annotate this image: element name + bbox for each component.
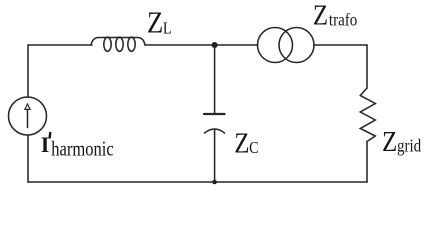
node A junction dot (top) <box>212 42 218 48</box>
svg-text:Z: Z <box>234 127 249 159</box>
wire inductor to node A <box>145 44 215 46</box>
svg-text:Z: Z <box>313 0 328 31</box>
svg-text:L: L <box>163 19 172 37</box>
svg-text:trafo: trafo <box>329 9 357 29</box>
wire node A to transformer <box>215 44 258 46</box>
wire node A down to capacitor <box>214 45 216 113</box>
label Ztrafo <box>313 0 357 31</box>
node B junction dot (bottom, capacitor tap) <box>212 180 217 185</box>
wire bottom horizontal (right corner to left corner) <box>28 181 367 183</box>
wire left vertical top (corner down to current source) <box>27 45 29 97</box>
label I'harmonic <box>41 132 114 161</box>
svg-text:harmonic: harmonic <box>51 138 113 162</box>
transformer Ztrafo (two overlapping circles) <box>258 28 315 63</box>
label ZC <box>234 127 258 159</box>
label ZL <box>147 6 172 40</box>
wire resistor bottom to bottom-right corner <box>366 142 368 183</box>
svg-text:C: C <box>249 139 258 157</box>
svg-text:Z: Z <box>382 125 397 157</box>
resistor Zgrid (zigzag) <box>360 88 375 142</box>
inductor ZL (coil) <box>91 37 145 51</box>
wire left vertical bottom (source to bottom-left corner) <box>27 135 29 182</box>
label Zgrid <box>382 125 421 157</box>
svg-text:Z: Z <box>147 6 163 40</box>
wire capacitor bottom to node B <box>214 130 216 183</box>
wire transformer to top-right corner <box>314 44 367 46</box>
svg-text:I: I <box>41 132 50 157</box>
wire top-left horizontal segment (corner to inductor) <box>28 44 92 46</box>
capacitor ZC <box>204 114 225 133</box>
svg-text:grid: grid <box>397 136 421 156</box>
current source I'harmonic (circle with up arrow) <box>9 97 47 135</box>
wire right vertical (corner down to resistor) <box>366 45 368 88</box>
